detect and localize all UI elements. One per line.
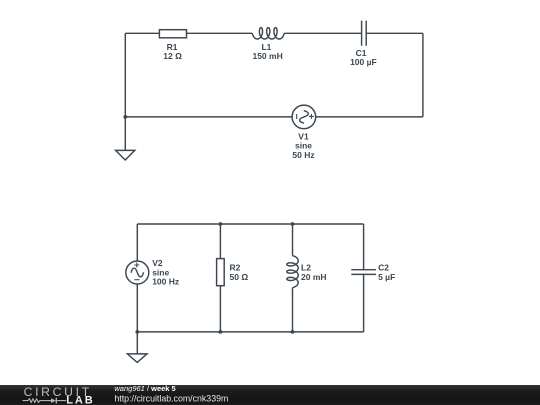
wire C2 top [363,224,365,270]
svg-text:50 Hz: 50 Hz [292,150,314,160]
svg-text:150 mH: 150 mH [252,51,282,61]
junction node bottom rail / V2 / ground [135,330,139,334]
capacitor C2 [351,270,376,275]
wire top-left segment [125,32,159,34]
svg-text:20 mH: 20 mH [301,272,327,282]
voltage source V2 [126,261,149,284]
inductor L1 [252,28,284,39]
svg-text:http://circuitlab.com/cnk339m: http://circuitlab.com/cnk339m [114,394,228,404]
svg-text:50 Ω: 50 Ω [230,272,249,282]
svg-text:5 µF: 5 µF [378,272,395,282]
svg-text:12 Ω: 12 Ω [163,51,182,61]
footer bar [0,385,540,405]
wire V1 to left junction [125,116,292,118]
svg-text:wang961 / week 5: wang961 / week 5 [114,385,175,393]
wire L1 to C1 [284,32,361,34]
ground GND2 [127,354,147,363]
svg-text:LAB: LAB [66,395,94,405]
ground GND1 [116,150,135,160]
logo diode [51,398,56,403]
wire R2 top [219,224,221,259]
junction node bottom rail / L2 [291,330,295,334]
wire left bottom [136,284,138,332]
resistor R2 [217,259,225,286]
wire L2 top [292,224,294,256]
junction node top rail / R2 [219,222,223,226]
wire right side down [422,33,424,117]
svg-text:100 Hz: 100 Hz [152,277,179,287]
inductor L2 [287,256,298,288]
wire R1 to L1 [187,32,253,34]
wire C2 bottom [363,274,365,332]
wire C1 to top-right corner [366,32,423,34]
wire L2 bottom [292,288,294,332]
wire bottom right to V1 [316,116,423,118]
wire left side [124,33,126,150]
logo wire + resistor zigzag [23,399,51,403]
wire R2 bottom [219,286,221,332]
svg-text:100 µF: 100 µF [350,57,377,67]
wire ground lead [136,332,138,354]
capacitor C1 [362,21,367,46]
resistor R1 [159,30,186,38]
wire bottom rail [137,331,363,333]
wire left top [136,224,138,261]
junction node bottom rail / R2 [219,330,223,334]
junction node V1/ground/left-wire [123,115,127,119]
voltage source V1 [292,105,316,129]
junction node top rail / L2 [291,222,295,226]
wire top rail [137,223,363,225]
